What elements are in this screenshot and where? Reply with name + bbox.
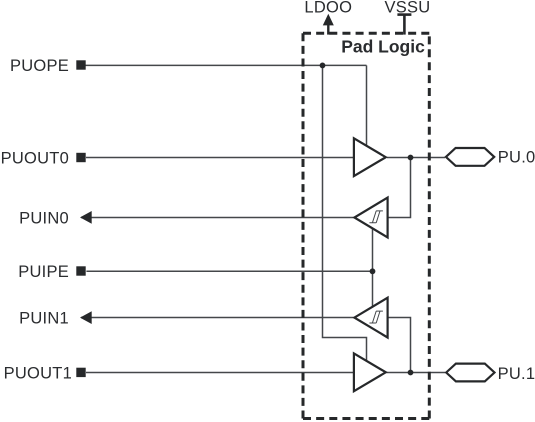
- svg-text:VSSU: VSSU: [385, 0, 431, 16]
- svg-text:PUIN1: PUIN1: [19, 310, 69, 328]
- svg-text:PUOUT0: PUOUT0: [1, 149, 69, 167]
- svg-text:PU.0: PU.0: [498, 148, 535, 166]
- svg-text:PUIN0: PUIN0: [19, 209, 69, 227]
- svg-text:Pad Logic: Pad Logic: [341, 37, 425, 57]
- svg-text:PUIPE: PUIPE: [18, 263, 69, 281]
- svg-text:PUOPE: PUOPE: [10, 57, 69, 75]
- svg-text:LDOO: LDOO: [304, 0, 352, 16]
- svg-text:PU.1: PU.1: [498, 365, 535, 383]
- svg-text:PUOUT1: PUOUT1: [4, 365, 72, 383]
